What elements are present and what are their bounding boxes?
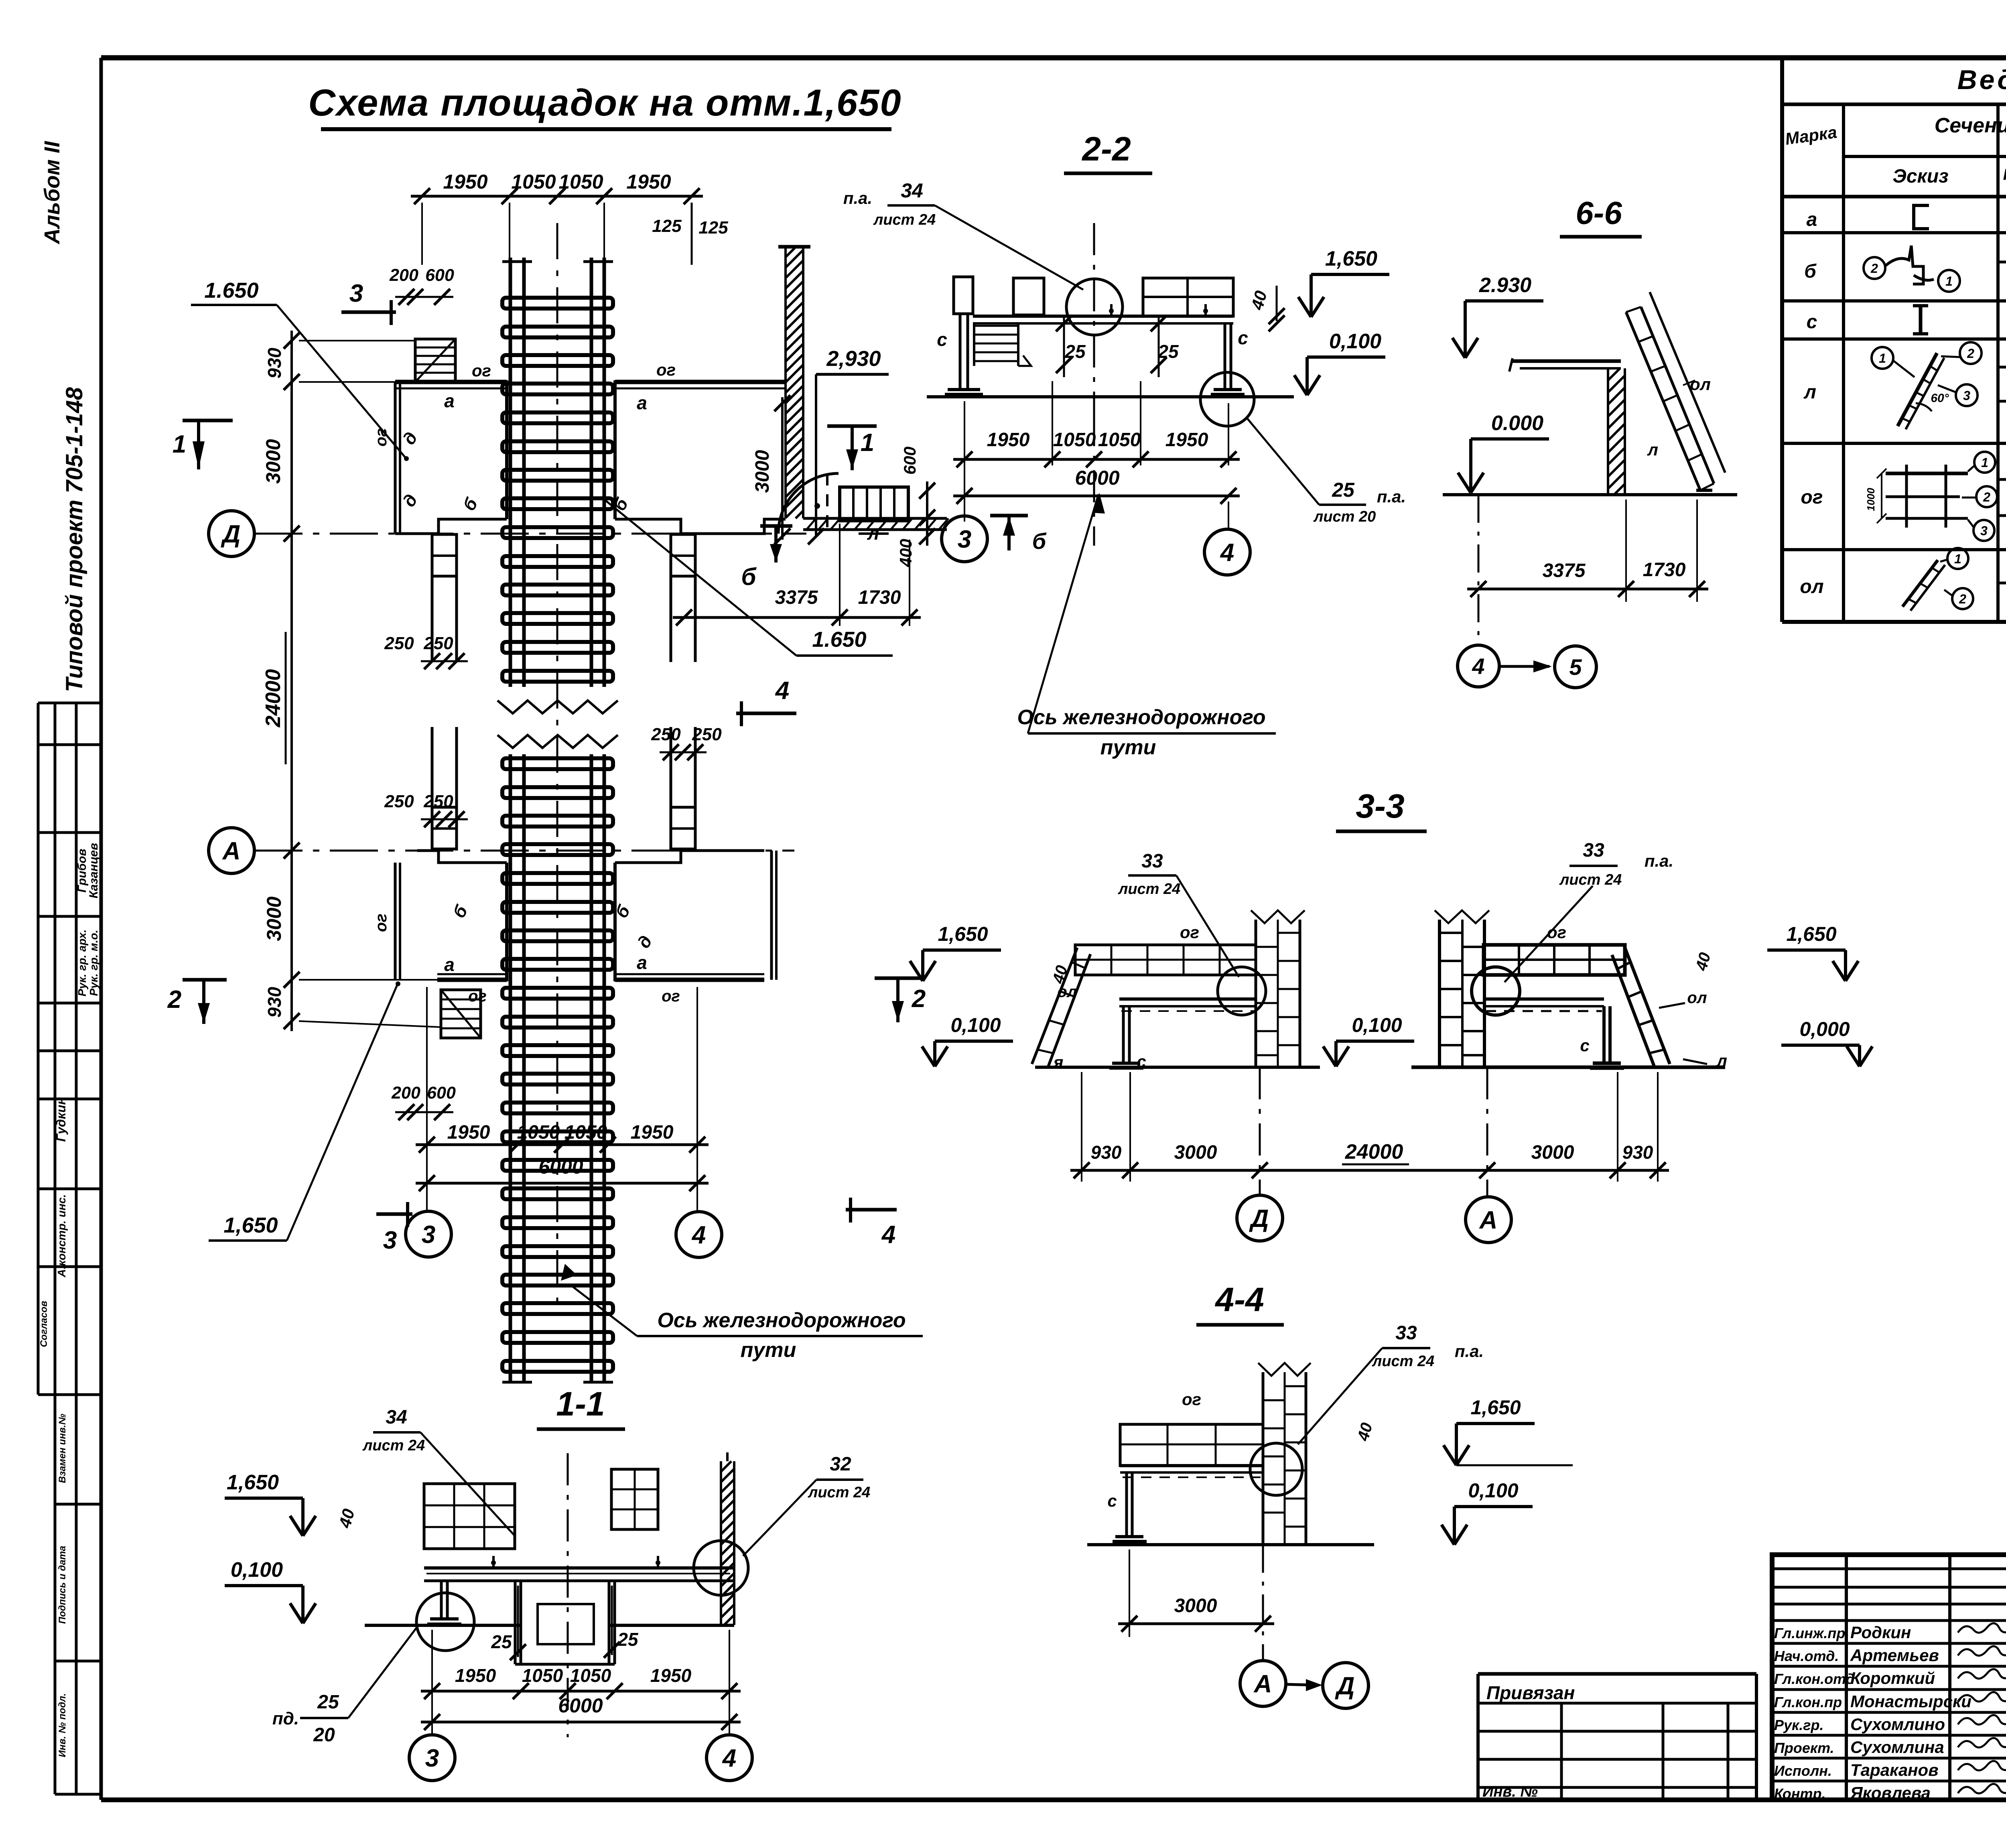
svg-text:6000: 6000 (538, 1156, 583, 1178)
svg-text:Эскиз: Эскиз (1892, 166, 1948, 187)
svg-text:ог: ог (1180, 923, 1199, 942)
svg-text:б: б (1804, 261, 1817, 282)
svg-text:3: 3 (1980, 524, 1988, 538)
svg-text:ол: ол (1800, 576, 1823, 597)
1-1 right railing grid (611, 1469, 658, 1529)
svg-text:3: 3 (958, 526, 971, 553)
svg-text:2: 2 (1967, 346, 1974, 361)
3-3 ground (1035, 1066, 1320, 1069)
svg-text:Гл.инж.пр.: Гл.инж.пр. (1774, 1625, 1849, 1641)
svg-text:Альбом II: Альбом II (40, 141, 64, 245)
svg-text:л: л (1647, 440, 1658, 459)
svg-text:а: а (637, 392, 647, 413)
svg-text:ол: ол (1057, 983, 1077, 1001)
svg-text:Казанцев: Казанцев (87, 843, 100, 898)
6-6 ladder (1626, 312, 1700, 490)
svg-text:3: 3 (425, 1744, 439, 1772)
4-4 axis circles A D (1240, 1661, 1286, 1706)
plan: axis D line and circle (254, 533, 806, 535)
svg-text:0.000: 0.000 (1491, 412, 1543, 435)
svg-text:0,100: 0,100 (231, 1558, 283, 1582)
svg-text:25: 25 (1064, 341, 1086, 362)
svg-text:930: 930 (264, 987, 285, 1017)
svg-text:32: 32 (830, 1454, 851, 1475)
svg-text:Инв. №: Инв. № (1482, 1783, 1538, 1800)
svg-text:2-2: 2-2 (1081, 130, 1131, 168)
svg-text:25: 25 (1332, 479, 1355, 501)
svg-text:250: 250 (692, 725, 722, 744)
svg-text:25: 25 (1157, 341, 1179, 362)
svg-text:5: 5 (1569, 654, 1582, 680)
3-3 right platform group (mirror) (1484, 945, 1625, 975)
3-3 left wall column (1255, 920, 1257, 1067)
2-2 left railing and column (954, 277, 973, 314)
svg-text:3: 3 (422, 1221, 435, 1249)
plan: rails (509, 258, 512, 687)
svg-text:Гл.кон.пр: Гл.кон.пр (1774, 1694, 1842, 1710)
svg-text:0,100: 0,100 (1329, 330, 1381, 353)
plan: corner column strips (431, 534, 434, 662)
svg-text:3000: 3000 (752, 450, 773, 493)
svg-text:3000: 3000 (1531, 1142, 1574, 1163)
svg-text:Типовой проект 705-1-148: Типовой проект 705-1-148 (61, 387, 87, 692)
svg-text:33: 33 (1141, 851, 1163, 872)
svg-text:Поз.: Поз. (2003, 166, 2006, 183)
svg-text:с: с (1107, 1491, 1117, 1510)
svg-text:б: б (1032, 528, 1047, 554)
svg-text:1.650: 1.650 (204, 278, 258, 303)
plan: right zone ladder (l) (840, 487, 908, 521)
3-3 left detail circle (1218, 967, 1266, 1015)
svg-text:3000: 3000 (263, 896, 285, 941)
svg-text:лист 24: лист 24 (1372, 1353, 1435, 1370)
plan: top-left stair (415, 339, 455, 382)
svg-text:1950: 1950 (1165, 429, 1208, 451)
1-1 left column (440, 1581, 443, 1619)
plan: top dimension row (411, 195, 703, 198)
svg-text:Взамен инв.№: Взамен инв.№ (57, 1413, 68, 1483)
svg-text:2: 2 (167, 986, 181, 1013)
svg-text:600: 600 (900, 447, 919, 475)
svg-text:200: 200 (391, 1083, 420, 1103)
svg-text:3000: 3000 (1174, 1595, 1217, 1616)
svg-text:600: 600 (427, 1083, 456, 1103)
svg-text:1: 1 (173, 431, 186, 458)
svg-text:4: 4 (691, 1221, 706, 1249)
svg-text:ог: ог (472, 361, 491, 380)
privyazan table (1478, 1672, 1756, 1676)
2-2 axis circles (942, 516, 987, 562)
svg-text:1050: 1050 (511, 171, 556, 193)
svg-text:Д: Д (221, 520, 241, 548)
svg-text:1,650: 1,650 (938, 923, 988, 945)
svg-text:3-3: 3-3 (1356, 787, 1404, 825)
svg-text:3375: 3375 (775, 587, 818, 608)
svg-text:ол: ол (1690, 375, 1711, 394)
svg-text:1950: 1950 (987, 429, 1030, 451)
svg-text:1,650: 1,650 (227, 1471, 279, 1494)
svg-text:2: 2 (1959, 592, 1966, 606)
svg-text:с: с (1238, 327, 1248, 348)
plan: right zone door arc (778, 473, 839, 534)
svg-text:1: 1 (861, 429, 874, 457)
svg-text:пд.: пд. (272, 1709, 299, 1728)
svg-text:ог: ог (656, 360, 676, 379)
svg-text:лист 24: лист 24 (873, 211, 936, 228)
4-4 wall column (1262, 1372, 1265, 1545)
3-3 axis circles (1237, 1195, 1283, 1241)
svg-text:125: 125 (698, 218, 728, 238)
svg-text:А: А (1479, 1206, 1498, 1234)
svg-text:Монастырски: Монастырски (1850, 1692, 1971, 1711)
svg-text:4: 4 (881, 1221, 895, 1249)
svg-text:3: 3 (1963, 388, 1970, 403)
svg-text:1730: 1730 (858, 587, 901, 608)
6-6 axis circles 4 5 (1458, 645, 1499, 687)
svg-text:п.а.: п.а. (1377, 487, 1406, 506)
svg-text:Д: Д (1249, 1205, 1269, 1233)
svg-text:Гл.кон.отд: Гл.кон.отд (1774, 1671, 1855, 1687)
svg-text:3: 3 (383, 1227, 397, 1254)
2-2 right railing grid (1143, 278, 1233, 316)
plan: 3000 right vertical dim (781, 397, 784, 540)
svg-text:0,100: 0,100 (1352, 1014, 1402, 1036)
6-6 ground (1443, 493, 1737, 496)
svg-text:1,650: 1,650 (223, 1213, 278, 1237)
plan: sleepers (502, 298, 613, 309)
svg-text:ог: ог (468, 987, 487, 1005)
2-2 ground line (927, 395, 1294, 398)
svg-text:Исполн.: Исполн. (1774, 1763, 1832, 1779)
svg-text:0,100: 0,100 (1468, 1479, 1518, 1502)
2-2 center line (1093, 223, 1095, 414)
svg-text:25: 25 (491, 1631, 512, 1652)
svg-text:1000: 1000 (1865, 488, 1877, 511)
svg-text:с: с (1807, 311, 1817, 333)
2-2 stair treads (973, 323, 975, 366)
svg-text:125: 125 (652, 216, 682, 236)
svg-text:1-1: 1-1 (556, 1385, 605, 1423)
6-6 wall hatched (1607, 368, 1609, 495)
plan: lower-left stair (441, 990, 481, 1038)
plan: hatched floor strip (803, 517, 947, 520)
svg-text:250: 250 (423, 634, 453, 653)
1-1 middle columns and pit (514, 1581, 517, 1664)
svg-text:Инв. № подл.: Инв. № подл. (57, 1693, 68, 1757)
svg-text:пути: пути (741, 1338, 796, 1362)
svg-text:1050: 1050 (570, 1665, 611, 1686)
svg-text:1050: 1050 (564, 1122, 607, 1143)
plan: lower platform belt (437, 978, 507, 982)
svg-text:ог: ог (1801, 487, 1823, 508)
svg-text:4: 4 (775, 677, 789, 705)
svg-text:л: л (1803, 382, 1816, 403)
plan: axis A line and circle (254, 850, 794, 852)
svg-text:б: б (741, 563, 757, 590)
svg-text:ол: ол (1687, 989, 1707, 1007)
svg-text:4-4: 4-4 (1214, 1281, 1264, 1318)
2-2 mid railing (1013, 278, 1044, 315)
svg-text:Согласов: Согласов (39, 1301, 49, 1347)
svg-text:Артемьев: Артемьев (1850, 1646, 1939, 1665)
4-4 detail circle (1250, 1443, 1302, 1495)
svg-text:24000: 24000 (1345, 1140, 1403, 1164)
svg-text:1,650: 1,650 (1786, 923, 1836, 945)
2-2 deck (973, 315, 1233, 318)
svg-text:930: 930 (264, 347, 285, 378)
svg-text:лист 20: лист 20 (1313, 508, 1376, 525)
svg-text:1950: 1950 (443, 171, 487, 193)
svg-text:1950: 1950 (455, 1665, 496, 1686)
svg-text:600: 600 (425, 266, 454, 285)
svg-text:ог: ог (1547, 923, 1566, 942)
svg-text:А: А (1253, 1670, 1272, 1698)
svg-text:лист 24: лист 24 (808, 1484, 871, 1501)
svg-text:Гудкин: Гудкин (54, 1097, 68, 1142)
2-2 right column (1224, 323, 1226, 390)
1-1 right detail circle (694, 1541, 748, 1595)
svg-text:лист 24: лист 24 (1118, 881, 1181, 898)
svg-text:4: 4 (1472, 654, 1484, 679)
1-1 axis circles (409, 1735, 455, 1781)
4-4 column (1125, 1472, 1128, 1537)
svg-text:Родкин: Родкин (1850, 1623, 1911, 1642)
4-4 ground (1087, 1543, 1374, 1546)
4-4 deck (1120, 1464, 1263, 1467)
svg-text:6000: 6000 (558, 1694, 603, 1717)
svg-text:1,650: 1,650 (1325, 247, 1377, 270)
svg-text:Схема площадок на отм.1,650: Схема площадок на отм.1,650 (308, 81, 901, 124)
svg-text:1730: 1730 (1643, 559, 1686, 581)
svg-text:п.а.: п.а. (843, 189, 872, 207)
svg-text:Тараканов: Тараканов (1850, 1761, 1939, 1779)
svg-text:930: 930 (1091, 1142, 1122, 1163)
3-3 left incline ladder (1032, 948, 1077, 1064)
svg-text:4: 4 (722, 1744, 736, 1772)
svg-text:250: 250 (651, 725, 681, 744)
svg-text:1050: 1050 (1053, 429, 1096, 451)
svg-text:Рук.гр.: Рук.гр. (1774, 1717, 1824, 1733)
svg-text:1050: 1050 (558, 171, 603, 193)
svg-text:1950: 1950 (626, 171, 671, 193)
4-4 railing (1120, 1424, 1263, 1466)
svg-text:а: а (1807, 209, 1817, 230)
svg-text:200: 200 (389, 266, 418, 285)
svg-text:А: А (222, 837, 241, 865)
border frame (101, 55, 2006, 61)
svg-text:250: 250 (423, 792, 453, 811)
svg-text:1050: 1050 (1098, 429, 1141, 451)
1-1 left railing grid (424, 1484, 515, 1549)
svg-text:Рук. гр. м.о.: Рук. гр. м.о. (87, 930, 100, 996)
svg-text:930: 930 (1622, 1142, 1653, 1163)
svg-text:25: 25 (617, 1629, 639, 1650)
svg-text:0,000: 0,000 (1799, 1018, 1850, 1040)
svg-text:6-6: 6-6 (1576, 195, 1622, 231)
plan: track break zigzag (497, 701, 618, 713)
svg-text:1: 1 (1954, 552, 1961, 566)
svg-text:п.а.: п.а. (1455, 1342, 1484, 1361)
svg-text:а: а (444, 390, 455, 411)
svg-text:лист 24: лист 24 (362, 1437, 425, 1454)
svg-text:6000: 6000 (1075, 467, 1119, 489)
svg-text:я: я (1053, 1053, 1064, 1072)
svg-text:34: 34 (901, 179, 923, 202)
svg-text:ог: ог (372, 914, 390, 932)
svg-text:1: 1 (1981, 455, 1988, 470)
svg-text:Ось железнодорожного: Ось железнодорожного (1017, 706, 1265, 729)
1-1 wall hatched right (720, 1461, 722, 1625)
svg-text:Яковлева: Яковлева (1850, 1783, 1931, 1802)
1-1 ground line (365, 1624, 522, 1627)
6-6 platform line (1513, 359, 1621, 363)
2-2 detail circle left (1066, 279, 1123, 335)
plan: upper platform belt (395, 380, 507, 384)
svg-text:34: 34 (386, 1407, 407, 1428)
svg-text:а: а (444, 954, 455, 975)
svg-text:25: 25 (317, 1692, 339, 1713)
3-3 left column (1122, 1006, 1125, 1063)
svg-text:Сухомлина: Сухомлина (1850, 1738, 1944, 1757)
svg-text:Сухомлино: Сухомлино (1850, 1715, 1945, 1734)
svg-text:А.констр. инс.: А.констр. инс. (55, 1194, 68, 1278)
svg-text:1950: 1950 (447, 1122, 490, 1143)
svg-text:Подпись и дата: Подпись и дата (57, 1546, 68, 1624)
svg-text:Д: Д (1335, 1672, 1355, 1700)
svg-text:Проект.: Проект. (1774, 1740, 1834, 1756)
svg-text:1: 1 (1879, 351, 1886, 366)
svg-text:с: с (1137, 1052, 1146, 1071)
svg-text:250: 250 (384, 634, 414, 653)
svg-text:33: 33 (1395, 1322, 1417, 1344)
svg-text:1950: 1950 (631, 1122, 674, 1143)
plan: railway axis center line (556, 223, 558, 1306)
svg-text:Сечение: Сечение (1935, 114, 2006, 137)
svg-text:лист 24: лист 24 (1559, 871, 1622, 888)
2-2 detail circle right (1200, 372, 1254, 426)
svg-text:2: 2 (912, 985, 926, 1013)
plan: bottom axis circles 3 and 4 (406, 1211, 451, 1257)
svg-text:250: 250 (384, 792, 414, 811)
1-1 footing detail circle (416, 1593, 474, 1651)
svg-text:20: 20 (313, 1724, 335, 1746)
svg-text:Нач.отд.: Нач.отд. (1774, 1648, 1839, 1664)
svg-text:3375: 3375 (1543, 560, 1586, 581)
svg-text:2: 2 (1983, 490, 1990, 504)
svg-text:0,100: 0,100 (950, 1014, 1001, 1036)
svg-text:Ось железнодорожного: Ось железнодорожного (657, 1309, 906, 1332)
svg-text:3: 3 (349, 280, 363, 307)
svg-text:1.650: 1.650 (812, 628, 866, 652)
svg-text:60°: 60° (1931, 392, 1949, 405)
svg-text:Привязан: Привязан (1486, 1682, 1575, 1703)
svg-text:2.930: 2.930 (1479, 274, 1531, 297)
plan: left dimension chain (290, 331, 293, 1031)
svg-text:с: с (937, 329, 947, 350)
vedomost table frame (1780, 58, 1784, 622)
svg-text:33: 33 (1583, 840, 1604, 861)
svg-text:1,650: 1,650 (1470, 1396, 1521, 1419)
svg-text:пути: пути (1100, 736, 1156, 759)
1-1 deck beam (424, 1566, 733, 1570)
svg-text:400: 400 (896, 539, 915, 567)
3-3 left platform group (1075, 945, 1256, 975)
svg-text:2,930: 2,930 (826, 347, 881, 371)
svg-text:4: 4 (1220, 539, 1234, 567)
title block frame (1772, 1555, 2006, 1800)
1-1 center line (567, 1453, 569, 1737)
plan: right hatched wall (784, 247, 787, 518)
svg-text:Короткий: Короткий (1850, 1669, 1935, 1688)
svg-text:а: а (637, 952, 647, 973)
svg-text:2: 2 (1870, 261, 1878, 276)
svg-text:3000: 3000 (262, 439, 284, 483)
svg-text:п.а.: п.а. (1645, 851, 1673, 870)
svg-text:Контр.: Контр. (1774, 1785, 1826, 1802)
svg-text:Ведомость элементов: Ведомость элементов (1957, 65, 2006, 95)
svg-text:1: 1 (1945, 274, 1953, 288)
svg-text:с: с (1580, 1036, 1589, 1055)
svg-text:Рук. гр. арх.: Рук. гр. арх. (76, 930, 88, 997)
svg-text:ог: ог (662, 987, 680, 1005)
svg-text:ог: ог (1182, 1390, 1201, 1409)
svg-text:3000: 3000 (1174, 1142, 1217, 1163)
svg-text:24000: 24000 (262, 669, 285, 728)
svg-text:л: л (1716, 1051, 1727, 1070)
svg-text:1950: 1950 (650, 1665, 692, 1686)
